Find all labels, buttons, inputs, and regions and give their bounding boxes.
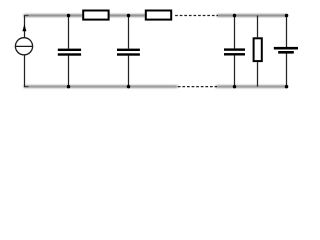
load resistor R [254,38,262,61]
wire capacitor C2 top lead [128,16,130,49]
junction node top of C1 [67,14,71,18]
wire top rail left segment [24,15,83,17]
wire current source top lead [24,15,26,38]
wire load resistor bottom lead [257,62,259,87]
junction node bottom of C3 [233,85,237,89]
wire load resistor top lead [257,16,259,38]
battery E [274,47,298,54]
wire bottom rail dashed continuation segment [178,86,217,88]
wire top rail between R1 and R2 [109,15,146,17]
wire capacitor C1 top lead [68,16,70,49]
junction node bottom right corner [285,85,289,89]
wire capacitor C2 bottom lead [128,56,130,87]
wire battery top lead [286,16,288,48]
wire capacitor C1 bottom lead [68,56,70,87]
junction node bottom of C1 [67,85,71,89]
resistor R1 [83,11,108,20]
capacitor C3 [224,48,245,55]
wire battery bottom lead [286,54,288,87]
wire top rail corner stub at source [25,15,29,17]
wire bottom rail right segment [216,86,287,88]
capacitor C2 [117,49,140,56]
wire capacitor C3 top lead [234,16,236,49]
capacitor C1 [58,49,81,56]
wire top rail right segment [217,15,287,17]
wire current source bottom lead [24,55,26,87]
wire capacitor C3 bottom lead [234,55,236,86]
junction node top right corner [285,14,289,18]
junction node top of C3 [233,14,237,18]
resistor R2 [146,11,171,20]
wire bottom rail left segment [24,86,178,88]
junction node top of C2 [127,14,131,18]
wire bottom rail corner stub at source [25,86,29,88]
current source I1 [15,24,32,55]
junction node bottom of C2 [127,85,131,89]
wire top rail dashed continuation segment [175,15,218,17]
